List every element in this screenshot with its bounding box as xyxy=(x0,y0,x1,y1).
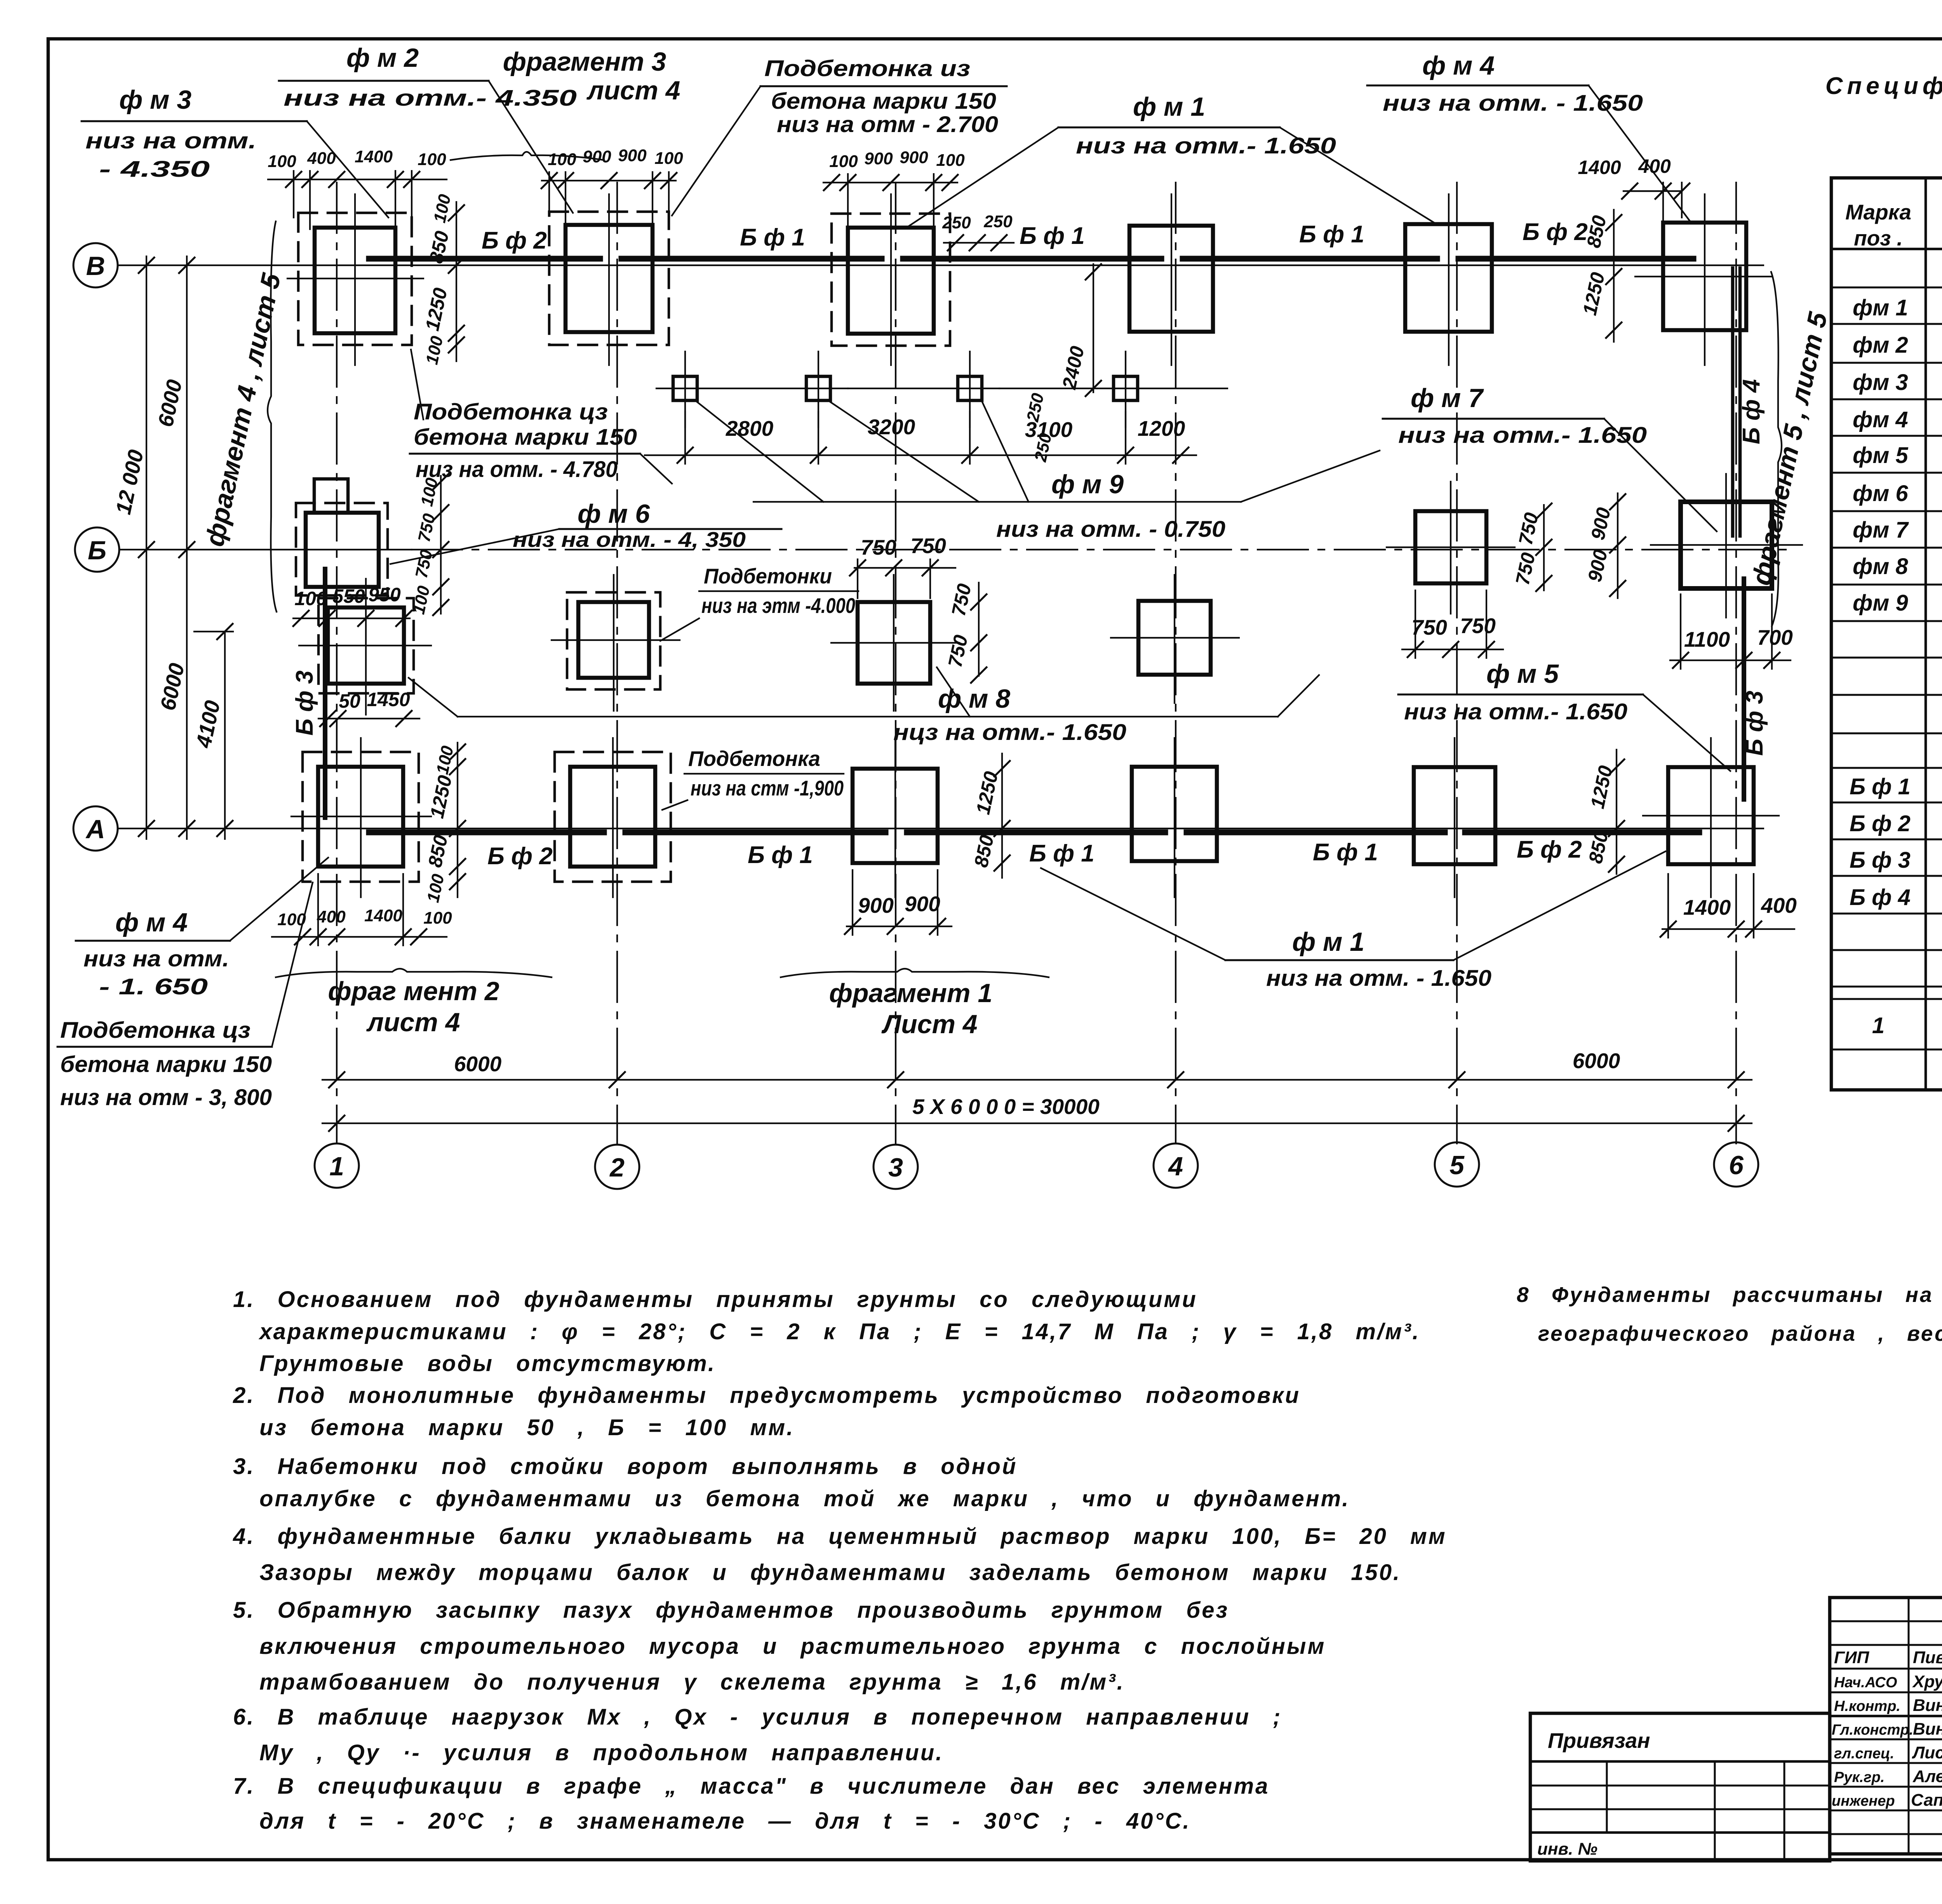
svg-text:низ на отм. - 4, 350: низ на отм. - 4, 350 xyxy=(513,527,746,552)
svg-text:3100: 3100 xyxy=(1025,418,1073,442)
beam БФ2 row А seg 1-2 xyxy=(369,832,570,870)
dim 100 400 1400 100 below А col1 xyxy=(272,874,452,945)
label Подбетонка из бетона марки 150 низ на отм-3, 800 xyxy=(57,882,313,1110)
svg-text:низ на отм.- 1.650: низ на отм.- 1.650 xyxy=(1404,699,1627,724)
svg-text:Б ф 1: Б ф 1 xyxy=(1299,221,1364,248)
foundation фм7 row Б col 6 xyxy=(1681,502,1772,588)
axis vertical line 1 xyxy=(336,183,338,1143)
foundation фм8 middle col 3 xyxy=(858,602,930,684)
label фм6 callout xyxy=(390,499,781,564)
axis vertical line 2 xyxy=(616,183,618,1143)
svg-text:4. фундаментные балки у: 4. фундаментные балки укладывать на цеме… xyxy=(233,1524,1447,1549)
svg-text:6. В таблице нагрузок Мх: 6. В таблице нагрузок Мх , Qх - усилия в… xyxy=(233,1704,1282,1730)
beam БФ1 row В seg 2-3 xyxy=(566,224,848,259)
svg-text:750: 750 xyxy=(861,535,896,559)
svg-text:фрагмент 5 , лист 5: фрагмент 5 , лист 5 xyxy=(1746,309,1833,588)
label фм9 callout xyxy=(697,402,1380,542)
axis circle 2 xyxy=(595,1145,639,1189)
centerline crosses row В squares xyxy=(287,194,1771,365)
svg-text:Б ф 3: Б ф 3 xyxy=(1850,848,1911,873)
svg-text:Подбетонка цз: Подбетонка цз xyxy=(60,1018,251,1043)
axis circle А xyxy=(73,806,118,851)
axis circle 5 xyxy=(1435,1142,1479,1187)
title block signature table xyxy=(1830,1598,1942,1854)
beam БФ3 vertical column 1 xyxy=(291,569,325,818)
svg-text:поз .: поз . xyxy=(1854,226,1903,250)
note 8 right column xyxy=(1517,1283,1942,1345)
svg-text:Лисичкин: Лисичкин xyxy=(1912,1743,1942,1762)
beam БФ3 vertical column 6 xyxy=(1741,579,1768,799)
svg-text:фм 3: фм 3 xyxy=(1853,370,1908,395)
label фм4 top callout xyxy=(1367,51,1690,221)
svg-text:850: 850 xyxy=(970,833,998,869)
svg-text:Б ф 2: Б ф 2 xyxy=(487,843,553,870)
label фм1 top callout xyxy=(909,92,1437,226)
svg-text:низ на отм.- 4.350: низ на отм.- 4.350 xyxy=(284,85,577,111)
label фрагмент 1 Лист 4 xyxy=(781,969,1049,1039)
svg-text:Алехова: Алехова xyxy=(1912,1767,1942,1786)
svg-text:550: 550 xyxy=(332,585,365,607)
svg-text:1400: 1400 xyxy=(355,147,393,166)
dim 250 250 rotated col4 xyxy=(1023,391,1056,463)
label фрагмент 2 лист 4 xyxy=(276,969,552,1037)
svg-text:лист 4: лист 4 xyxy=(586,76,680,105)
svg-text:Б ф 3: Б ф 3 xyxy=(291,670,318,736)
svg-text:1200: 1200 xyxy=(1138,416,1185,440)
foundation фм2 row В col 1 xyxy=(315,228,395,333)
dim 750 750 rotated right of Б col5 xyxy=(1511,503,1552,591)
svg-text:6000: 6000 xyxy=(153,377,186,429)
svg-text:100: 100 xyxy=(430,192,454,225)
dim 1250 850 rotated А col6 left xyxy=(1584,750,1624,874)
svg-text:1250: 1250 xyxy=(1578,270,1609,317)
label фм2 callout xyxy=(279,43,577,213)
svg-text:Нач.АСО: Нач.АСО xyxy=(1834,1674,1897,1691)
svg-text:бетона марки 150: бетона марки 150 xyxy=(771,89,996,114)
svg-text:фм 5: фм 5 xyxy=(1853,443,1908,468)
привязан block xyxy=(1530,1713,1830,1861)
centerline crosses row А squares xyxy=(291,738,1779,897)
axis circle 3 xyxy=(874,1145,918,1189)
svg-text:А: А xyxy=(85,815,105,844)
svg-text:ф м 7: ф м 7 xyxy=(1411,383,1484,413)
svg-text:Гл.констр.: Гл.констр. xyxy=(1832,1722,1913,1738)
svg-text:инженер: инженер xyxy=(1832,1793,1895,1809)
svg-text:низ на отм. - 0.750: низ на отм. - 0.750 xyxy=(996,517,1225,542)
label Подбетонки низ на отм -4.000 xyxy=(660,564,858,641)
foundation фм1 row В col 5 xyxy=(1405,224,1492,332)
left dim line 6000 6000 xyxy=(153,256,195,839)
dim 1400 400 above В col6 xyxy=(1578,155,1690,225)
svg-text:100: 100 xyxy=(654,149,683,168)
svg-text:трамбованием до получения: трамбованием до получения γ скелета грун… xyxy=(259,1669,1125,1695)
svg-text:ф м 5: ф м 5 xyxy=(1486,659,1559,689)
spec table header text xyxy=(1845,200,1942,251)
svg-text:бетона марки 150: бетона марки 150 xyxy=(414,425,637,450)
svg-text:Б ф 1: Б ф 1 xyxy=(748,842,813,868)
svg-text:250: 250 xyxy=(942,213,971,232)
axis vertical line 4 xyxy=(1175,183,1176,1143)
svg-text:1400: 1400 xyxy=(364,906,402,925)
svg-text:низ на отм.- 1.650: низ на отм.- 1.650 xyxy=(1398,423,1647,448)
svg-text:5 Х 6 0 0 0 = 30000: 5 Х 6 0 0 0 = 30000 xyxy=(912,1095,1100,1119)
svg-text:900: 900 xyxy=(864,149,893,168)
svg-text:инв. №: инв. № xyxy=(1537,1840,1597,1859)
dim 2400 rotated col4 xyxy=(1058,264,1101,396)
axis circle В xyxy=(73,243,118,287)
podbetonka dashed box В col 3 xyxy=(832,214,950,346)
svg-text:низ на отм - 3, 800: низ на отм - 3, 800 xyxy=(60,1085,272,1110)
dim 750 750 below Б col5 xyxy=(1402,590,1503,658)
svg-text:Подбетонки: Подбетонки xyxy=(704,564,832,588)
svg-text:900: 900 xyxy=(1587,506,1615,542)
svg-text:Б ф 1: Б ф 1 xyxy=(740,224,805,251)
svg-text:Б ф 2: Б ф 2 xyxy=(482,227,547,254)
svg-text:700: 700 xyxy=(1757,625,1793,649)
svg-text:опалубке с фундаментами из: опалубке с фундаментами из бетона той же… xyxy=(259,1486,1350,1511)
svg-text:100: 100 xyxy=(422,334,447,366)
svg-text:ф м 8: ф м 8 xyxy=(938,684,1010,714)
axis circle 6 xyxy=(1714,1142,1758,1187)
beam БФ1 row А seg 2-3 xyxy=(570,832,853,868)
svg-text:ф м 9: ф м 9 xyxy=(1051,470,1124,499)
svg-text:Подбетонка: Подбетонка xyxy=(688,747,820,771)
svg-text:ф м 3: ф м 3 xyxy=(119,85,191,115)
svg-text:низ на отм.: низ на отм. xyxy=(84,946,229,971)
svg-text:характеристиками : φ = 28°;: характеристиками : φ = 28°; С = 2 к Па ;… xyxy=(258,1319,1420,1344)
bottom overall dim line 30000 xyxy=(322,1095,1752,1131)
svg-text:Винклер: Винклер xyxy=(1913,1696,1942,1715)
podbetonka dashed box В col 2 xyxy=(549,212,669,345)
svg-text:1100: 1100 xyxy=(1684,627,1730,651)
beam БФ4 vertical column 6 xyxy=(1733,268,1765,536)
dim 100 900 900 100 above В col3 xyxy=(823,148,965,228)
svg-text:900: 900 xyxy=(900,148,928,167)
svg-text:Подбетонка из: Подбетонка из xyxy=(764,56,970,81)
spec table column lines xyxy=(1926,178,1942,1090)
фм9 small square 2 xyxy=(806,352,999,427)
foundation row В col 2 xyxy=(566,225,653,332)
svg-text:Зазоры между торцами бало: Зазоры между торцами балок и фундаментам… xyxy=(259,1560,1401,1585)
dim 1100 700 below Б col6 xyxy=(1670,594,1793,669)
left dim line 12000 xyxy=(111,256,154,839)
svg-text:1400: 1400 xyxy=(1578,157,1621,178)
beam БФ2 row В seg 5-6 xyxy=(1405,219,1693,259)
svg-text:низ на стм -1,900: низ на стм -1,900 xyxy=(691,776,844,800)
foundation фм4 row А col 1 xyxy=(318,767,403,867)
фм9 small square 1 xyxy=(656,352,848,427)
axis line Б horizontal xyxy=(119,549,1787,550)
axis circle Б xyxy=(75,527,119,572)
svg-text:фм 6: фм 6 xyxy=(1853,481,1908,506)
dim 900 900 rotated left of Б col6 xyxy=(1584,493,1625,598)
svg-text:250: 250 xyxy=(983,212,1013,231)
svg-text:низ на отм. - 4.780: низ на отм. - 4.780 xyxy=(416,457,618,482)
foundation фм1 row А col 3 xyxy=(853,769,938,863)
left dim line 4100 xyxy=(191,624,233,839)
svg-text:100: 100 xyxy=(829,152,858,171)
svg-text:Б ф 4: Б ф 4 xyxy=(1850,885,1911,910)
svg-text:фм 2: фм 2 xyxy=(1853,332,1908,358)
label фм5 callout xyxy=(1398,659,1730,771)
svg-text:Марка: Марка xyxy=(1845,200,1911,224)
centerline crosses middle row squares xyxy=(299,474,1802,715)
dim 850 1250 rotated В col6 left xyxy=(1578,210,1622,342)
svg-text:1450: 1450 xyxy=(367,689,410,710)
svg-text:400: 400 xyxy=(1761,893,1797,917)
svg-text:Рук.гр.: Рук.гр. xyxy=(1834,1769,1885,1786)
axis vertical line 6 xyxy=(1735,183,1737,1143)
label фрагмент 5 лист 5 vertical xyxy=(1746,272,1833,626)
svg-text:- 4.350: - 4.350 xyxy=(99,157,210,182)
svg-text:Грунтовые воды отсутствую: Грунтовые воды отсутствуют. xyxy=(259,1351,716,1376)
dim 2800 3200 3100 1200 фм9 row xyxy=(645,412,1196,464)
foundation фм8 middle col 4 xyxy=(1138,601,1211,675)
dashed box А col 1 xyxy=(303,752,419,882)
svg-text:850: 850 xyxy=(424,833,452,869)
svg-text:Б ф 2: Б ф 2 xyxy=(1523,219,1588,245)
svg-text:низ на отм. - 1.650: низ на отм. - 1.650 xyxy=(1383,91,1643,116)
svg-text:Му , Qу ·- усилия в про: Му , Qу ·- усилия в продольном направлен… xyxy=(259,1740,943,1765)
svg-text:1250: 1250 xyxy=(426,773,456,820)
label Подбетонка из бетона марки 150 низ на отм.-4.780 xyxy=(410,350,672,484)
svg-text:нцз на отм.- 1.650: нцз на отм.- 1.650 xyxy=(893,720,1126,745)
svg-text:750: 750 xyxy=(944,633,972,669)
dim 100 400 1400 100 above В col1 xyxy=(268,147,447,229)
spec table title xyxy=(1825,73,1942,142)
beam БФ2 row А seg 5-6 xyxy=(1414,832,1699,863)
svg-text:900: 900 xyxy=(618,146,647,165)
axis vertical line 5 xyxy=(1456,183,1458,1143)
svg-text:900: 900 xyxy=(583,147,611,166)
svg-text:Б ф 4: Б ф 4 xyxy=(1738,379,1765,444)
svg-text:100: 100 xyxy=(418,150,446,169)
svg-text:Н.контр.: Н.контр. xyxy=(1834,1698,1900,1714)
label фм1 bottom callout xyxy=(1041,851,1665,991)
svg-text:ф м 4: ф м 4 xyxy=(1422,51,1495,80)
foundation фм5 row Б col 5 xyxy=(1415,511,1486,583)
svg-text:1. Основанием под фундаме: 1. Основанием под фундаменты приняты гру… xyxy=(233,1287,1197,1312)
dashed box А col 2 xyxy=(555,752,671,882)
svg-text:ГИП: ГИП xyxy=(1834,1648,1870,1667)
фм9 small square 3 xyxy=(958,352,1097,427)
spec table bolt row xyxy=(1872,1006,1942,1048)
svg-text:Б ф 2: Б ф 2 xyxy=(1850,811,1911,836)
dim 750 750 above middle col3 xyxy=(850,534,955,598)
svg-text:ф м 2: ф м 2 xyxy=(346,43,419,73)
beam БФ1 row А seg 4-5 xyxy=(1132,832,1414,866)
svg-text:1250: 1250 xyxy=(421,286,451,333)
svg-text:3200: 3200 xyxy=(868,415,915,439)
foundation фм5 row А col 6 xyxy=(1668,767,1754,864)
svg-text:Б ф 1: Б ф 1 xyxy=(1850,774,1911,799)
svg-text:750: 750 xyxy=(1411,615,1447,639)
svg-text:Лист 4: Лист 4 xyxy=(881,1009,977,1039)
svg-text:100: 100 xyxy=(423,872,448,904)
label Подбетонка из бетона марки 150 низ на отм-2.700 xyxy=(672,56,1007,216)
svg-text:Б ф 3: Б ф 3 xyxy=(1741,691,1768,756)
dim 100 750 750 100 rotated col1 В-Б xyxy=(409,474,449,616)
svg-text:фраг мент 2: фраг мент 2 xyxy=(328,976,499,1006)
svg-text:включения строительного м: включения строительного мусора и растите… xyxy=(259,1634,1326,1659)
svg-text:Спецификация к схеме распо: Спецификация к схеме расположения фундам… xyxy=(1825,73,1942,99)
foundation фм1 row В col 4 xyxy=(1129,226,1213,332)
svg-text:6000: 6000 xyxy=(155,661,189,712)
foundation фм6 row Б col 1 xyxy=(306,513,379,587)
svg-text:5: 5 xyxy=(1450,1150,1465,1180)
beam БФ1 row В seg 3-4 xyxy=(848,223,1129,259)
label фм7 callout xyxy=(1383,383,1717,531)
svg-text:низ на этм -4.000: низ на этм -4.000 xyxy=(701,593,855,618)
svg-text:100: 100 xyxy=(268,152,296,171)
svg-text:100: 100 xyxy=(409,584,433,616)
svg-text:6000: 6000 xyxy=(454,1052,502,1076)
svg-text:низ на отм. - 1.650: низ на отм. - 1.650 xyxy=(1266,966,1491,991)
dim 850 1250 rotated В col1 right xyxy=(421,192,464,366)
svg-text:750: 750 xyxy=(947,582,975,618)
svg-text:Б ф 2: Б ф 2 xyxy=(1517,836,1582,863)
svg-text:2. Под монолитные фундаме: 2. Под монолитные фундаменты предусмотре… xyxy=(233,1383,1300,1408)
svg-text:100: 100 xyxy=(548,150,576,169)
svg-text:гл.спец.: гл.спец. xyxy=(1834,1746,1894,1762)
spec table rows: beams xyxy=(1850,774,1942,910)
dim 250 250 col4 top xyxy=(942,212,1014,251)
foundation фм8 middle col 2 xyxy=(578,602,649,678)
foundation middle col 1 xyxy=(328,607,404,684)
spec table outer border xyxy=(1831,178,1942,1090)
svg-text:ф м 4: ф м 4 xyxy=(115,908,188,937)
svg-text:1250: 1250 xyxy=(972,769,1002,816)
label Подбетонка низ на отм -1,900 xyxy=(662,747,844,810)
axis circle 4 xyxy=(1154,1143,1198,1188)
svg-text:низ на отм.: низ на отм. xyxy=(85,128,256,153)
svg-text:750: 750 xyxy=(414,512,439,544)
svg-text:бетона марки 150: бетона марки 150 xyxy=(60,1052,272,1077)
dim 900 900 below А col3 xyxy=(845,870,952,935)
svg-text:1400: 1400 xyxy=(1683,895,1731,919)
dashed box middle col 2 xyxy=(567,592,660,689)
svg-text:фм 9: фм 9 xyxy=(1853,590,1908,616)
dim 750 750 rotated right of middle col3 xyxy=(944,582,987,683)
svg-text:12 000: 12 000 xyxy=(111,447,148,517)
svg-text:Привязан: Привязан xyxy=(1548,1728,1650,1753)
svg-text:100: 100 xyxy=(423,908,452,928)
svg-text:6: 6 xyxy=(1729,1150,1744,1180)
svg-text:4: 4 xyxy=(1168,1152,1183,1181)
svg-text:7. В спецификации в гра: 7. В спецификации в графе „ масса" в чис… xyxy=(233,1773,1269,1799)
svg-text:Б ф 1: Б ф 1 xyxy=(1020,223,1085,249)
svg-text:6000: 6000 xyxy=(1573,1049,1620,1073)
axis line А horizontal xyxy=(118,828,1763,829)
svg-text:5. Обратную засыпку пазу: 5. Обратную засыпку пазух фундаментов пр… xyxy=(233,1598,1229,1623)
svg-text:Б: Б xyxy=(88,536,106,565)
dim 100 1250 850 100 rotated А col1 right xyxy=(423,743,465,904)
фм9 small square 4 xyxy=(1097,352,1227,427)
svg-text:ф м 1: ф м 1 xyxy=(1292,927,1364,957)
foundation row В col 3 xyxy=(848,228,934,334)
svg-text:Б ф 1: Б ф 1 xyxy=(1313,839,1378,866)
svg-text:фм 7: фм 7 xyxy=(1853,517,1909,543)
svg-text:950: 950 xyxy=(368,584,401,606)
svg-text:1: 1 xyxy=(1872,1013,1885,1038)
svg-text:фрагмент 4 , лист 5: фрагмент 4 , лист 5 xyxy=(200,270,286,549)
axis line B horizontal xyxy=(118,265,1763,266)
svg-text:900: 900 xyxy=(1584,548,1611,584)
svg-text:4100: 4100 xyxy=(191,698,224,750)
spec table rows: foundations xyxy=(1853,256,1942,616)
svg-text:3. Набетонки под стойки воро: 3. Набетонки под стойки ворот выполнять … xyxy=(233,1454,1017,1479)
svg-text:Б ф 1: Б ф 1 xyxy=(1029,840,1095,867)
svg-text:низ на отм - 2.700: низ на отм - 2.700 xyxy=(777,112,998,137)
svg-text:100: 100 xyxy=(936,151,965,170)
dim 1400 400 below А col6 xyxy=(1660,874,1797,938)
svg-text:750: 750 xyxy=(1460,614,1496,638)
svg-text:3: 3 xyxy=(888,1153,903,1182)
svg-text:400: 400 xyxy=(317,907,346,926)
foundation row А col 2 xyxy=(570,767,655,867)
svg-text:Подбетонка цз: Подбетонка цз xyxy=(414,399,608,425)
svg-text:750: 750 xyxy=(1511,551,1539,587)
svg-text:из бетона марки 50 ,: из бетона марки 50 , Б = 100 мм. xyxy=(259,1415,794,1440)
label фрагмент 3 лист 4 xyxy=(451,47,680,160)
spec table row lines xyxy=(1831,249,1942,1049)
beam БФ2 row В seg 1-2 xyxy=(369,227,566,259)
dim 100 550 950 above middle col1 xyxy=(293,584,412,626)
svg-text:100: 100 xyxy=(294,588,327,609)
svg-text:низ на отм.- 1.650: низ на отм.- 1.650 xyxy=(1076,133,1336,158)
beam БФ1 row В seg 4-5 xyxy=(1129,221,1405,259)
label фм4 bottom left callout xyxy=(76,858,328,999)
beam БФ1 row А seg 3-4 xyxy=(853,832,1132,867)
label фрагмент 4 лист 5 vertical xyxy=(200,221,286,612)
svg-text:1: 1 xyxy=(329,1152,344,1181)
foundation фм1 row А col 4 xyxy=(1132,767,1217,861)
svg-text:Пивторак: Пивторак xyxy=(1913,1648,1942,1667)
foundation фм1 row А col 5 xyxy=(1414,767,1495,864)
svg-text:фм 1: фм 1 xyxy=(1853,295,1908,320)
svg-text:2400: 2400 xyxy=(1058,344,1088,392)
podbetonka dashed box В col 1 xyxy=(298,213,412,345)
svg-text:2800: 2800 xyxy=(726,416,774,440)
svg-text:Хрупало: Хрупало xyxy=(1912,1672,1942,1691)
axis circle 1 xyxy=(315,1143,359,1188)
svg-text:фрагмент 3: фрагмент 3 xyxy=(503,47,666,77)
foundation фм4 row В col 6 xyxy=(1663,223,1746,330)
svg-text:географического района , вес: географического района , вес снегового п… xyxy=(1538,1321,1942,1345)
bottom dim line 6000 spans xyxy=(322,1049,1752,1088)
svg-text:8 Фундаменты рассчитаны на: 8 Фундаменты рассчитаны на нагрузки: ско… xyxy=(1517,1283,1942,1307)
svg-text:для t = - 20°С ; в знамен: для t = - 20°С ; в знаменателе — для t =… xyxy=(259,1808,1191,1834)
dim 50 1450 below middle col1 xyxy=(318,689,419,726)
dim 1250 850 rotated А col3 right xyxy=(970,754,1010,878)
svg-text:50: 50 xyxy=(339,690,360,712)
svg-text:- 1. 650: - 1. 650 xyxy=(99,974,208,999)
dashed box middle col 1 xyxy=(318,598,414,693)
svg-text:750: 750 xyxy=(412,548,436,580)
label фм8 callout xyxy=(409,667,1319,745)
svg-text:ф м 1: ф м 1 xyxy=(1133,92,1205,122)
dashed box Б col 1 xyxy=(296,503,388,595)
svg-text:фм 4: фм 4 xyxy=(1853,407,1908,432)
svg-text:В: В xyxy=(86,251,105,281)
svg-text:ф м 6: ф м 6 xyxy=(578,499,650,529)
svg-text:2: 2 xyxy=(609,1153,625,1182)
notes text column left xyxy=(233,1287,1447,1834)
title block signature names xyxy=(1832,1648,1942,1810)
svg-text:Винклер: Винклер xyxy=(1913,1720,1942,1739)
foundation фм6 small square col 1 xyxy=(314,479,348,513)
svg-text:900: 900 xyxy=(905,892,940,916)
